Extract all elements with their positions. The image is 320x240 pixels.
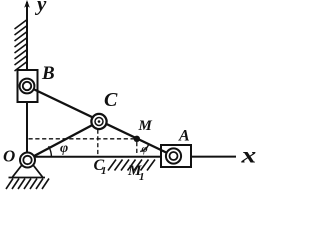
link BA (rod B-C-M-A) <box>27 86 174 156</box>
svg-text:φ: φ <box>60 141 68 156</box>
svg-text:φ: φ <box>142 144 148 155</box>
pivot support triangle at O <box>9 166 46 178</box>
dashed vertical line M to M1 <box>136 142 138 156</box>
angle arc phi at M <box>140 144 149 151</box>
pin joint O <box>20 153 35 168</box>
crank OC <box>28 122 100 160</box>
svg-text:A: A <box>178 128 190 145</box>
y-axis <box>26 2 28 157</box>
pin joint A <box>166 148 181 163</box>
wall hatching along y-axis <box>15 20 27 71</box>
y-axis arrowhead <box>24 0 30 8</box>
svg-text:1: 1 <box>139 171 145 183</box>
pin joint C <box>91 114 106 129</box>
pin joint B <box>20 79 35 94</box>
angle arc phi at O <box>49 146 52 157</box>
ground hatching along x-axis near M1 <box>108 160 155 171</box>
slider block B <box>18 70 38 102</box>
svg-text:M: M <box>138 118 153 134</box>
svg-text:O: O <box>3 147 15 166</box>
svg-text:C: C <box>104 89 118 111</box>
dashed horizontal line from y-axis to M <box>29 138 135 140</box>
svg-text:x: x <box>240 142 256 168</box>
dashed vertical line C to C1 <box>97 130 99 156</box>
slider block A <box>161 145 191 167</box>
svg-text:B: B <box>41 63 55 84</box>
svg-text:1: 1 <box>101 165 107 177</box>
ground hatching under O support <box>6 179 49 190</box>
x-axis <box>30 156 236 158</box>
point M dot <box>134 136 140 142</box>
